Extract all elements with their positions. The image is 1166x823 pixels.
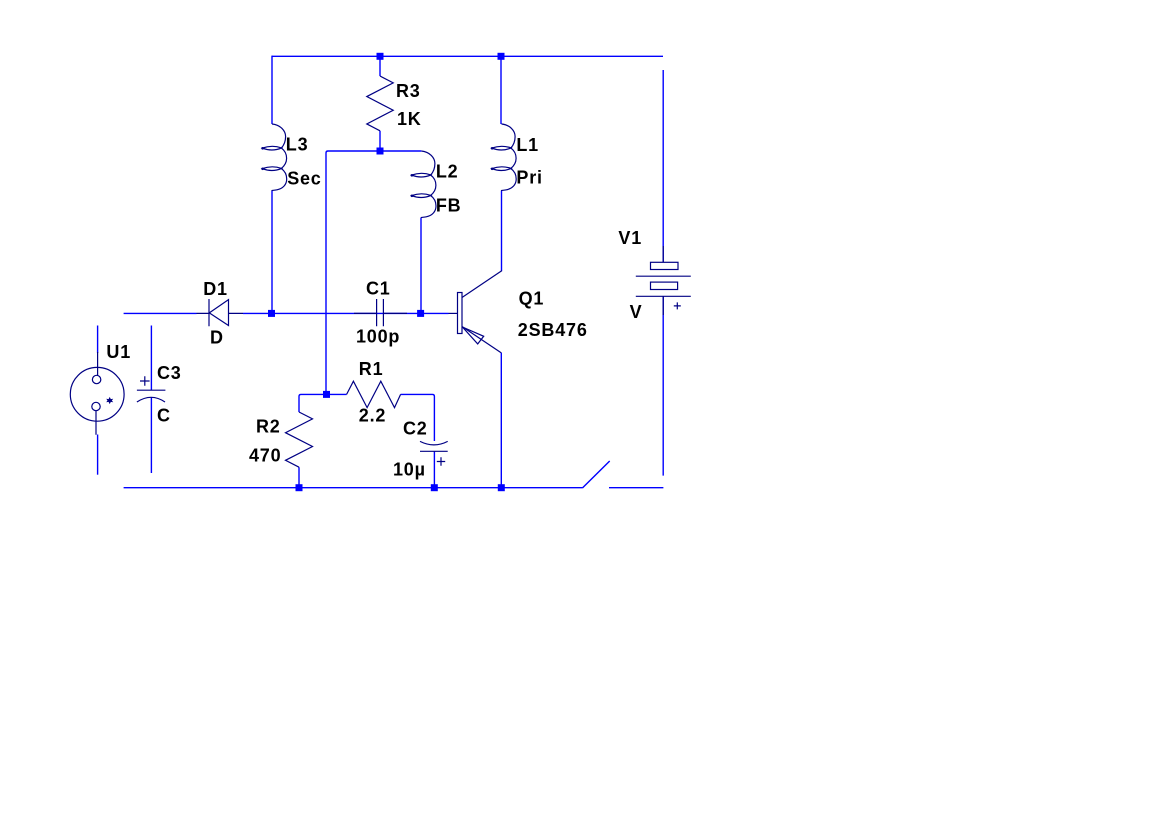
svg-text:100p: 100p — [356, 327, 400, 347]
wire L2 bottom lead — [420, 218, 422, 314]
wire L1 top lead — [500, 56, 502, 124]
node top bus / R3 — [377, 53, 384, 60]
wire R1 right lead to C2 corner — [401, 394, 435, 441]
svg-text:V1: V1 — [618, 228, 642, 248]
battery V1 plus — [674, 302, 681, 309]
svg-text:D1: D1 — [203, 279, 228, 299]
node R3 bottom / L2 — [377, 148, 384, 155]
node bottom bus / R2 — [296, 484, 303, 491]
svg-text:L2: L2 — [436, 162, 459, 182]
svg-text:Sec: Sec — [287, 168, 321, 188]
wire C3 top — [150, 326, 152, 391]
capacitor C3 plates — [137, 390, 166, 402]
node main wire / L3 — [268, 310, 275, 317]
svg-text:D: D — [210, 328, 224, 348]
node main wire / L2 — [417, 310, 424, 317]
wire L3 top lead — [271, 56, 273, 124]
wire top bus — [272, 55, 663, 57]
wire bottom bus left of switch — [124, 487, 583, 489]
svg-text:R1: R1 — [359, 359, 384, 379]
capacitor C1 — [354, 299, 407, 326]
wire R3 top lead — [379, 56, 381, 76]
svg-text:C1: C1 — [366, 278, 391, 298]
node bottom bus / C2 — [431, 484, 438, 491]
svg-text:2.2: 2.2 — [359, 405, 386, 425]
node top bus / L1 — [498, 53, 505, 60]
wire node R3-L2 horizontal to left corner then down to R1/R2 node — [326, 151, 380, 394]
resistor R2 zigzag — [286, 412, 313, 467]
connector U1 — [70, 367, 124, 421]
svg-text:Pri: Pri — [516, 167, 542, 187]
svg-text:FB: FB — [436, 196, 462, 216]
svg-text:1K: 1K — [397, 109, 422, 129]
wire R3 bottom lead — [379, 131, 381, 151]
wire L1 bottom to collector — [501, 191, 503, 271]
U1 star — [106, 397, 113, 404]
wire diode to transistor base — [243, 312, 449, 314]
svg-text:10µ: 10µ — [393, 459, 426, 479]
svg-text:470: 470 — [249, 445, 281, 465]
wire R2 node horizontal + down lead — [299, 394, 327, 412]
wire battery bottom lead — [662, 296, 664, 475]
wire L3 bottom lead — [271, 191, 273, 313]
switch blade — [582, 461, 609, 488]
svg-text:L3: L3 — [286, 135, 309, 155]
resistor R3 zigzag — [367, 76, 393, 131]
svg-text:C2: C2 — [403, 418, 428, 438]
wire U1 top — [97, 326, 99, 354]
inductor L3 — [261, 124, 286, 191]
capacitor C2 plates — [420, 441, 448, 451]
svg-text:2SB476: 2SB476 — [518, 320, 588, 340]
svg-text:V: V — [630, 302, 643, 322]
wire battery top lead — [662, 70, 664, 262]
wire node to R1 left lead — [327, 393, 347, 395]
capacitor C3 plus — [140, 376, 150, 386]
inductor L1 — [491, 124, 516, 191]
node R1/R2 — [323, 391, 330, 398]
wire input left to diode — [124, 312, 197, 314]
wire R2 bottom lead — [298, 467, 300, 488]
svg-text:R3: R3 — [396, 81, 421, 101]
svg-text:U1: U1 — [106, 342, 131, 362]
svg-text:R2: R2 — [256, 416, 281, 436]
svg-text:Q1: Q1 — [519, 289, 545, 309]
svg-text:C: C — [157, 405, 171, 425]
wire emitter down to bottom bus — [500, 353, 502, 488]
capacitor C2 plus — [437, 457, 445, 465]
svg-text:L1: L1 — [516, 135, 539, 155]
wire node R3 to L2 top — [380, 150, 421, 152]
battery V1 — [662, 246, 664, 262]
wire bottom bus right of switch — [609, 487, 663, 489]
wire C2 bottom lead — [433, 452, 435, 488]
wire U1 bottom — [97, 435, 99, 475]
svg-text:C3: C3 — [157, 363, 182, 383]
transistor Q1 — [458, 293, 463, 334]
node bottom bus / emitter — [498, 484, 505, 491]
diode D1 — [197, 299, 244, 326]
resistor R1 zigzag — [347, 381, 401, 407]
wire C3 bottom — [150, 398, 152, 474]
inductor L2 — [411, 151, 436, 218]
